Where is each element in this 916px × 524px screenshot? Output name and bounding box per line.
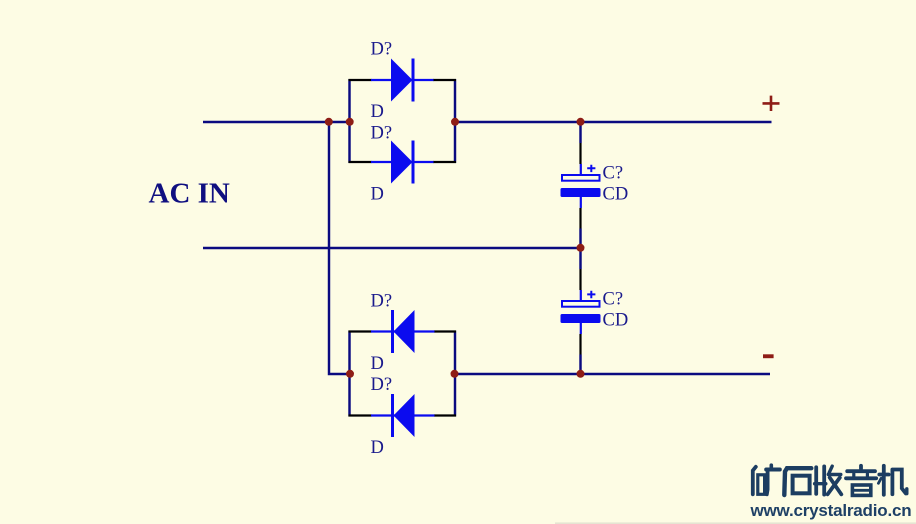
diode D? (top2) pin left — [349, 161, 372, 163]
wire: right vertical of bottom diode pair — [454, 331, 456, 417]
diode D? (top2) triangle — [391, 141, 413, 184]
capacitor C? (bottom) positive plate — [562, 301, 600, 307]
svg-text:C?: C? — [603, 290, 624, 310]
capacitor C? (bottom) lead bottom — [580, 323, 582, 334]
bottom edge faint line — [555, 522, 916, 524]
logo char 石 — [784, 468, 811, 495]
logo char 收 — [815, 466, 842, 494]
diode D? (bot1) pin right — [434, 330, 456, 332]
diode D? (bot2) cathode bar — [391, 394, 394, 437]
wire: cap column C1 lower segment — [579, 229, 581, 249]
svg-text:D?: D? — [371, 375, 393, 395]
diode D? (bot1) cathode bar — [391, 310, 394, 353]
capacitor C? (top) pin bottom — [579, 208, 581, 229]
junction dot at top wire / tap — [325, 118, 333, 126]
diode D? (bot1) triangle — [394, 310, 415, 353]
junction dot at top bridge left — [346, 118, 354, 126]
diode D? (bot2) lead — [371, 414, 435, 416]
svg-text:C?: C? — [603, 163, 624, 183]
diode D? (top2) pin right — [433, 161, 456, 163]
logo char 机 — [878, 466, 906, 495]
wire: right vertical of top diode pair — [454, 79, 456, 163]
diode D? (top1) pin right — [433, 79, 456, 81]
svg-text:D: D — [371, 438, 384, 458]
port - (negative output) — [763, 354, 774, 358]
junction dot at bottom bridge right — [451, 370, 459, 378]
capacitor C? (top) lead bottom — [580, 197, 582, 208]
capacitor C? (top) positive plate — [562, 175, 600, 181]
diode D? (top1) lead — [371, 79, 434, 81]
diode D? (bot2) pin right — [434, 414, 456, 416]
capacitor C? (top) lead top — [580, 164, 582, 175]
wire: bottom output wire to - terminal — [455, 373, 770, 375]
diode D? (bot2) triangle — [394, 394, 415, 437]
svg-text:www.crystalradio.cn: www.crystalradio.cn — [750, 501, 912, 520]
diode D? (top2) cathode bar — [412, 141, 415, 184]
diode D? (top1) triangle — [391, 59, 413, 102]
capacitor C? (top) pin top — [579, 143, 581, 164]
svg-text:D?: D? — [371, 39, 393, 59]
capacitor C? (bottom) plus sign — [587, 291, 595, 298]
logo char 音 — [846, 466, 876, 496]
wire: middle AC input wire — [203, 247, 581, 249]
svg-text:CD: CD — [603, 184, 629, 204]
wire: tap from top wire down to lower bridge (crosses middle wire) — [329, 122, 350, 374]
capacitor C? (bottom) pin bottom — [579, 334, 581, 355]
watermark logo 矿石收音机 — [753, 465, 907, 495]
svg-text:D: D — [371, 184, 384, 204]
wire: left vertical of bottom diode pair — [348, 331, 350, 417]
diode D? (top1) cathode bar — [412, 59, 415, 102]
svg-text:AC IN: AC IN — [149, 178, 230, 210]
diode D? (top1) pin left — [349, 79, 372, 81]
capacitor C? (bottom) pin top — [579, 269, 581, 290]
wire: left vertical of top diode pair — [348, 79, 350, 163]
port + (positive output) — [763, 96, 780, 111]
svg-text:D: D — [371, 102, 384, 122]
capacitor C? (top) plus sign — [587, 165, 595, 172]
wire: top output wire to + terminal — [455, 121, 772, 123]
diode D? (bot1) lead — [371, 330, 435, 332]
svg-text:D: D — [371, 354, 384, 374]
junction dot at middle wire / caps — [577, 244, 585, 252]
wire: cap column C1 upper segment — [579, 122, 581, 143]
diode D? (bot1) pin left — [349, 330, 372, 332]
junction dot at top wire / cap C1 — [577, 118, 585, 126]
capacitor C? (bottom) lead top — [580, 290, 582, 301]
diode D? (top2) lead — [371, 161, 434, 163]
junction dot at bottom wire / cap C2 — [577, 370, 585, 378]
junction dot at bottom bridge left — [346, 370, 354, 378]
capacitor C? (top) negative plate — [561, 188, 601, 197]
diode D? (bot2) pin left — [349, 414, 372, 416]
svg-text:D?: D? — [371, 291, 393, 311]
wire: cap column C2 upper segment — [579, 248, 581, 269]
capacitor C? (bottom) negative plate — [561, 314, 601, 323]
svg-text:D?: D? — [371, 123, 393, 143]
wire: top AC input wire — [203, 121, 350, 123]
svg-text:CD: CD — [603, 310, 629, 330]
wire: cap column C2 lower segment — [579, 355, 581, 375]
junction dot at top bridge right — [451, 118, 459, 126]
logo char 矿 — [753, 465, 780, 494]
